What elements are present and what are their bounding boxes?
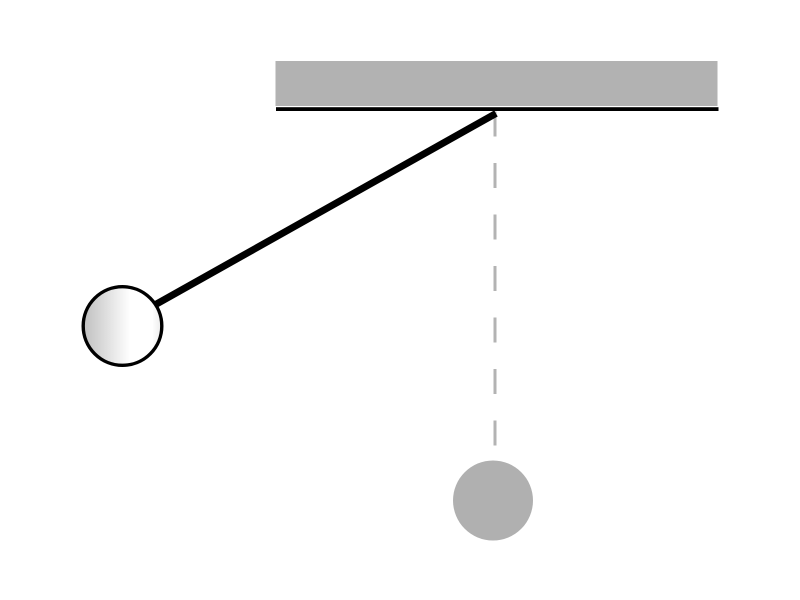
ceiling slab xyxy=(276,61,718,106)
equilibrium dashed line xyxy=(494,112,497,447)
pendulum bob xyxy=(83,287,162,366)
ceiling line xyxy=(276,107,719,111)
pendulum rod xyxy=(123,113,497,323)
equilibrium bob xyxy=(453,461,533,541)
